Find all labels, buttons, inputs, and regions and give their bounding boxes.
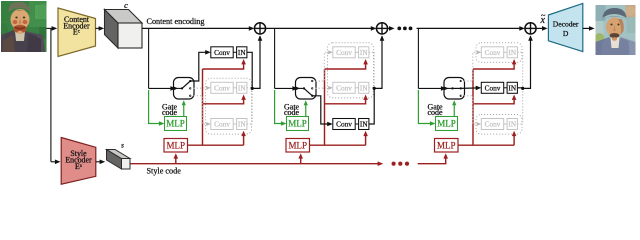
block 1 Conv row 1 (active): [211, 47, 247, 58]
svg-text:Conv: Conv: [485, 119, 501, 128]
svg-text:MLP: MLP: [437, 140, 456, 150]
block 1 dashed container rows 2-3: [206, 78, 252, 134]
svg-text:Conv: Conv: [214, 83, 230, 92]
content encoding wire: [142, 26, 254, 31]
wire ellipsis to adder3: [417, 26, 525, 31]
style encoder E^s: [61, 138, 96, 185]
svg-text:Content encoding: Content encoding: [147, 17, 205, 26]
svg-text:MLP: MLP: [288, 140, 307, 150]
block 1 inactive path to row 2: [190, 86, 211, 90]
wire style encoder to style tensor: [96, 160, 105, 165]
block 3 Conv row 2 (active): [481, 82, 517, 93]
wire adder1 to adder2: [266, 26, 377, 31]
svg-text:MLP: MLP: [288, 119, 307, 129]
block 2 inactive path to row 2: [312, 86, 333, 90]
svg-text:Conv: Conv: [214, 48, 230, 57]
svg-text:MLP: MLP: [166, 119, 185, 129]
block 3 gate code label: [428, 102, 444, 117]
svg-text:Conv: Conv: [485, 48, 501, 57]
style code wire: [131, 161, 384, 166]
svg-text:MLP: MLP: [166, 140, 185, 150]
svg-text:code: code: [428, 108, 444, 117]
block 2 inactive output bus: [369, 52, 374, 88]
svg-text:Decoder: Decoder: [553, 19, 579, 28]
svg-text:s: s: [121, 141, 124, 150]
svg-text:code: code: [162, 108, 178, 117]
block 3 dashed container rows 3-3: [476, 115, 522, 135]
block 2 Conv row 3 (active): [333, 119, 369, 130]
block 1 active path to row 1: [190, 50, 211, 81]
block 1 gate code label: [162, 102, 178, 117]
block 3 Conv row 1 (inactive): [481, 47, 517, 58]
block 3 inactive path to row 1: [461, 50, 482, 81]
svg-text:MLP: MLP: [437, 119, 456, 129]
svg-text:D: D: [563, 29, 569, 38]
block 2 active path to row 3: [312, 96, 333, 127]
block 3 dashed container rows 1-1: [476, 43, 522, 63]
block 3 adder: [525, 23, 536, 34]
block 1 gate MLP: [165, 100, 187, 130]
style feed arrow block1: [174, 153, 179, 164]
block 2 selector switch: [295, 78, 316, 100]
block 2 content branch wire: [275, 28, 298, 90]
block 2 style MLP feed wires: [310, 59, 368, 145]
input image: [0, 1, 48, 52]
svg-text:IN: IN: [360, 83, 368, 92]
block 1 content branch wire: [149, 28, 176, 90]
wire encoder to cube: [96, 26, 105, 31]
block 2 Conv row 2 (inactive): [333, 82, 369, 93]
content encoder E^c: [58, 8, 96, 57]
wire decoder to output image: [583, 26, 595, 31]
svg-text:IN: IN: [238, 83, 246, 92]
block 3 content branch wire: [418, 28, 446, 90]
block 1 style MLP: [164, 139, 188, 153]
svg-text:code: code: [284, 108, 300, 117]
svg-text:IN: IN: [508, 83, 516, 92]
svg-text:Conv: Conv: [214, 119, 230, 128]
block 1 inactive output bus: [247, 88, 252, 124]
wire adder3 to decoder: [536, 26, 548, 31]
output image: [595, 5, 636, 55]
block 2 bus junction: [373, 87, 376, 90]
content encoding label: [147, 17, 205, 26]
svg-text:IN: IN: [508, 119, 516, 128]
block 2 adder: [376, 23, 387, 34]
wire input to style encoder: [51, 28, 61, 164]
block 1 Conv row 3 (inactive): [211, 119, 247, 130]
block 1 Conv row 2 (inactive): [211, 82, 247, 93]
block 2 Conv row 1 (inactive): [333, 47, 369, 58]
content code tensor c: [105, 0, 143, 48]
style ellipsis: [392, 162, 410, 166]
block 2 style MLP: [286, 139, 310, 153]
svg-text:Conv: Conv: [336, 83, 352, 92]
svg-text:Conv: Conv: [336, 48, 352, 57]
block 1 adder: [254, 23, 265, 34]
block 1 style MLP feed wires: [188, 59, 246, 145]
wire input to content encoder: [47, 26, 58, 31]
x-tilde label: [539, 10, 545, 26]
style wire to MLP block3: [418, 153, 448, 164]
block 3 gate MLP: [436, 100, 458, 130]
block 3 output wire to adder: [517, 35, 532, 88]
svg-text:Style code: Style code: [147, 167, 182, 176]
svg-text:~: ~: [541, 10, 546, 20]
block 3 style MLP: [435, 139, 459, 153]
block 2 gate MLP: [287, 100, 309, 130]
block 3 inactive path to row 3: [461, 96, 482, 126]
top ellipsis: [397, 27, 412, 31]
block 2 inactive path to row 1: [312, 50, 333, 81]
block 3 Conv row 3 (inactive): [481, 119, 517, 130]
svg-text:IN: IN: [360, 48, 368, 57]
svg-text:IN: IN: [238, 48, 246, 57]
block 1 gate code wire: [149, 90, 165, 126]
block 2 gate code wire: [275, 90, 287, 126]
style feed arrow block2: [298, 153, 303, 164]
block 1 inactive path to row 3: [190, 96, 211, 126]
svg-text:IN: IN: [508, 48, 516, 57]
block 3 bus junction: [521, 87, 524, 90]
block 2 gate code label: [284, 102, 300, 117]
block 2 output wire to adder: [369, 35, 384, 124]
svg-text:c: c: [124, 0, 128, 10]
block 3 active path to row 2: [461, 86, 482, 91]
block 2 dashed container rows 1-2: [328, 43, 374, 98]
block 3 style MLP feed wires: [458, 59, 516, 145]
svg-text:Conv: Conv: [336, 119, 352, 128]
block 1 bus junction: [251, 87, 254, 90]
svg-text:IN: IN: [360, 119, 368, 128]
style code label: [147, 167, 182, 176]
svg-text:Conv: Conv: [485, 83, 501, 92]
block 1 selector switch: [173, 78, 194, 100]
style code tensor s: [107, 141, 131, 170]
block 1 output wire to adder: [247, 35, 262, 88]
svg-text:IN: IN: [238, 119, 246, 128]
block 3 gate code wire: [418, 90, 435, 126]
decoder D: [548, 3, 582, 51]
block 3 inactive output bus: [517, 52, 522, 124]
block 3 selector switch: [444, 78, 465, 100]
wire adder2 to ellipsis: [388, 26, 395, 31]
